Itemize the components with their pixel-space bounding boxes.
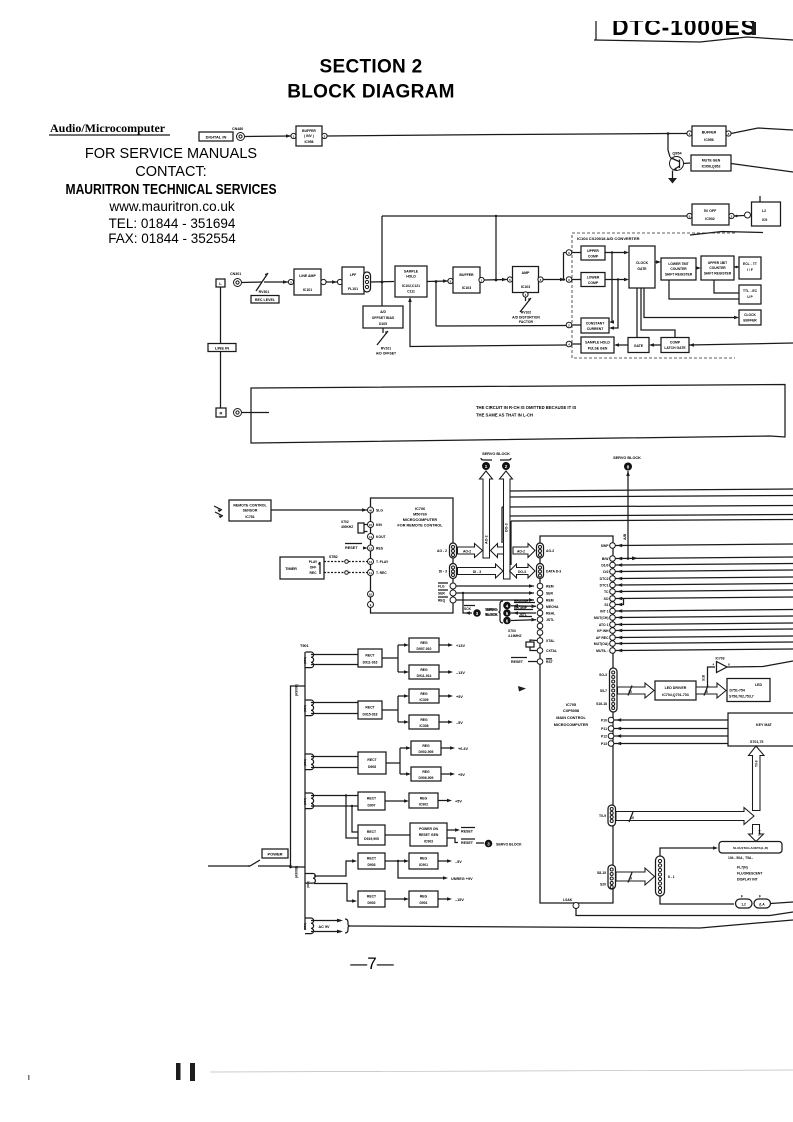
pin nc b [368,602,374,608]
svg-text:RESET: RESET [511,660,524,664]
reg D907-910 [409,638,439,652]
label REC LEVEL [251,296,279,304]
svg-text:RECT: RECT [365,654,375,658]
svg-text:F: F [759,895,761,899]
pin 2 [566,322,572,328]
winding 2 wires [311,703,358,714]
svg-text:CXTAL: CXTAL [546,649,557,653]
wire P12 [614,735,728,737]
wire gate to pulse gen [616,344,628,346]
svg-text:2: 2 [505,464,508,469]
wire reset to pin 13 [363,547,367,549]
svg-text:D105: D105 [379,322,387,326]
wire junction down to offset bias [381,282,383,306]
clock buffer [739,310,761,325]
pin INT1 [610,608,616,614]
svg-text:CURRENT: CURRENT [587,327,605,331]
lower comp [581,273,605,287]
rect D907 [358,792,385,810]
svg-text:P10: P10 [601,719,607,723]
wire down to Q954 [668,134,670,158]
svg-text:LINE AMP: LINE AMP [299,274,316,278]
svg-text:DTC1: DTC1 [600,584,609,588]
label FLG [438,582,448,584]
wire SER to IC705 [456,592,534,594]
wire buffer to amp [484,279,507,282]
svg-text:REQ: REQ [438,599,446,603]
pin 4 [566,341,572,347]
svg-text:REM: REM [546,585,554,589]
upper 1bit counter shift register [701,256,734,280]
ecl-ttl interface [739,257,761,279]
pin 6 [566,250,572,256]
pin ATO1 [610,622,616,628]
out +5V [439,695,451,697]
svg-text:IC956: IC956 [304,140,313,144]
binding mark 1 [176,1063,181,1080]
wire lpf to sample hold [371,281,395,284]
servo node 3b [485,840,493,848]
svg-text:IC781: IC781 [245,515,254,519]
svg-text:REG: REG [420,692,428,696]
svg-text:MUT(CH): MUT(CH) [594,616,609,620]
fat arrow T0-9 right [616,808,754,825]
IR arrows [214,506,223,516]
svg-text:IC903: IC903 [424,840,433,844]
pill S8-15 [608,865,616,889]
remote control sensor [229,500,271,521]
wire 5v off feed (y=216) [382,215,687,217]
power on reset gen IC903 [410,823,447,846]
arrow mark [518,686,526,692]
pin 15 KIN [368,522,374,528]
svg-text:LSAK: LSAK [563,898,573,902]
svg-text:DO-3: DO-3 [518,570,526,574]
pin REM a [537,583,543,589]
IC706 box [371,498,454,613]
wire L down [220,287,222,343]
wire P13 [614,743,728,745]
svg-text:DI - 3: DI - 3 [473,570,481,574]
wire pill bottom to lamp pills [660,896,734,904]
fat arrow AO-2 into IC705 [513,544,535,558]
pill DI-3 out [450,564,457,579]
svg-text:FACTOR: FACTOR [519,320,533,324]
buffer IC956 top right [692,126,726,146]
svg-text:IC956,Q952: IC956,Q952 [702,165,721,169]
pin SER [450,590,456,596]
pin 40 SLG [368,507,374,513]
pill T0-9 [608,805,616,826]
svg-text:SECTION 2: SECTION 2 [320,57,423,78]
wire jack to pot [242,281,262,284]
wire MUT(OA) [616,642,793,644]
wire rect2 to regs [382,696,407,722]
svg-text:14: 14 [369,535,373,539]
pin 1 of top buffer [687,131,692,136]
svg-text:COMP: COMP [588,281,599,285]
rect D919,905 [358,825,385,845]
svg-text:AC 9V: AC 9V [318,925,330,929]
sample hold pulse gen [581,337,614,353]
pin D/2 [610,569,616,575]
svg-text:(900): (900) [303,657,307,664]
svg-text:C111: C111 [407,290,415,294]
svg-text:CN301: CN301 [230,272,241,276]
buffer IC103 [453,267,480,293]
wire upper counter to ecl [734,266,739,268]
pin 2 [322,133,327,138]
fat arrow DO-3 double [510,564,536,578]
svg-text:MICROCOMPUTER: MICROCOMPUTER [554,723,589,727]
svg-text:AO-2: AO-2 [463,549,471,553]
pin nc a [368,591,374,597]
svg-text:ATO 1: ATO 1 [599,623,609,627]
svg-text:IC103: IC103 [521,285,530,289]
svg-text:GATE: GATE [637,267,647,271]
svg-text:A/B: A/B [623,533,627,540]
svg-text:SWP: SWP [601,544,609,548]
pin SWP [610,543,616,549]
buffer (inv) IC956 [296,126,322,146]
power switch label [262,849,288,858]
svg-text:1: 1 [485,464,488,469]
wire upper comp to clock gate [605,252,627,254]
svg-text:D902-905: D902-905 [419,750,434,754]
svg-text:( INV ): ( INV ) [304,134,314,138]
bus line 5 [511,520,793,522]
svg-text:–5V: –5V [456,721,463,725]
wire loop to constant current a [611,253,612,323]
wire pin6 to upper comp [572,252,581,254]
svg-text:REM6INH: REM6INH [514,599,529,603]
pin D1/0 [610,562,616,568]
wire junction drop [435,282,437,327]
svg-text:REG: REG [420,641,428,645]
pin 1 [291,133,296,138]
wire SCK drop [463,593,472,613]
relay box (cut at margin) [752,202,781,226]
ac9v arrows [311,921,341,932]
svg-text:AO-2: AO-2 [546,549,554,553]
svg-text:BUFFER: BUFFER [743,319,757,323]
wire clock gate to lower counter [655,261,659,263]
svg-text:SL34,STAG,AUETA(L,R): SL34,STAG,AUETA(L,R) [733,846,768,850]
svg-text:MAURITRON TECHNICAL SERVICES: MAURITRON TECHNICAL SERVICES [66,181,277,198]
svg-text:8 - 1: 8 - 1 [668,875,675,879]
fat bus arrow up from node 2 [500,471,513,579]
svg-text:CLOCK: CLOCK [744,313,756,317]
reg IC309 [409,689,439,703]
svg-text:SERVO BLOCK: SERVO BLOCK [482,452,510,456]
wire P11 [614,728,728,730]
winding 1 wires [311,655,358,665]
svg-text:(900): (900) [303,923,307,930]
branch to rect5 [352,806,358,832]
svg-text:(900): (900) [303,798,307,805]
label SER [438,589,448,591]
svg-text:SER: SER [546,592,554,596]
svg-text:THE CIRCUIT IN R-CH IS OM: THE CIRCUIT IN R-CH IS OMITTED BECAUSE I… [476,405,576,410]
wire feed vertical from analog junction [381,216,383,281]
connector pill on lpf [364,272,371,292]
wire rect4 to reg [385,800,407,802]
winding 3 [305,754,314,770]
underline [49,134,170,136]
AD converter dashed boundary IC104 [572,233,735,358]
svg-text:IC309: IC309 [419,698,428,702]
wire MUT(CH) [616,616,793,618]
rect D915-918 [358,701,382,719]
rect D908 [358,752,386,774]
svg-text:DO-3: DO-3 [505,523,509,532]
pin S1 [610,602,616,608]
svg-text:RESET: RESET [461,830,474,834]
svg-text:IC704,Q701-703: IC704,Q701-703 [662,693,689,697]
svg-text:RECT: RECT [365,706,375,710]
svg-text:CXP5058: CXP5058 [563,709,579,713]
pin B/W [610,556,616,562]
svg-text:TC: TC [604,590,609,594]
pin 5 [687,213,692,218]
svg-text:1,2: 1,2 [741,903,746,907]
svg-text:IC901: IC901 [419,863,428,867]
svg-text:RES: RES [376,547,384,551]
svg-text:TIMER: TIMER [285,567,297,571]
svg-text:FOR REMOTE CONTROL: FOR REMOTE CONTROL [397,524,443,528]
svg-text:LOWER: LOWER [587,276,600,280]
wire servo 8 down [627,471,629,559]
svg-text:MECHA: MECHA [546,605,559,609]
svg-text:(900): (900) [303,705,307,712]
svg-text:LED DRIVER: LED DRIVER [665,686,687,690]
header underline [594,37,793,42]
key matrix box [728,713,793,746]
winding 3 wires [311,757,358,768]
pot RV102 [520,297,531,312]
svg-text:D/2: D/2 [603,570,608,574]
svg-text:THE SAME AS THAT IN L-CH: THE SAME AS THAT IN L-CH [476,413,533,418]
svg-text:(A900B): (A900B) [295,684,299,696]
wire pot to amp [264,281,288,283]
pin 4 bottom [523,292,528,297]
wire mute gen out [731,164,793,173]
svg-text:LOWER 7BIT: LOWER 7BIT [668,262,688,266]
out -13V [439,671,451,673]
svg-text:FL101: FL101 [348,287,358,291]
svg-text:104 - 50A , T5A -: 104 - 50A , T5A - [728,856,753,860]
wire REQ to IC705 [456,599,534,601]
wire to relay [734,215,744,218]
svg-text:REMOTE CONTROL: REMOTE CONTROL [233,504,267,508]
transformer core bar [304,652,306,930]
svg-text:(LA: (LA [759,903,765,907]
wire node4 to MECHA [511,605,536,608]
IC705 box [540,536,613,903]
tick above relay [759,196,761,202]
wire rect3 to regs [386,748,409,774]
primary feed wire [291,686,306,867]
svg-text:DI - 3: DI - 3 [439,570,447,574]
rect D903 [358,853,385,869]
svg-text:F: F [741,895,743,899]
clock gate [629,246,655,288]
pin MUTIL [610,648,616,654]
pin SER [537,590,543,596]
vertical connector pill [656,856,665,896]
out -5V b [438,860,450,862]
connector DIGITAL IN [199,132,233,141]
wire ATO1 [616,623,793,625]
svg-text:SERVO BLOCK: SERVO BLOCK [496,843,522,847]
wire P10 [614,719,728,721]
svg-text:MUTE GEN: MUTE GEN [702,159,721,163]
svg-text:SHIFT REGISTER: SHIFT REGISTER [704,272,732,276]
svg-text:UPPER: UPPER [587,249,599,253]
wire to constant current [436,325,566,328]
wire B/W [616,557,793,559]
wire S1 jog to SO [616,599,624,605]
svg-text:BLOCK: BLOCK [486,613,498,617]
out +5V b [441,773,453,775]
wire node5 to REAL [511,612,536,614]
svg-text:D902: D902 [367,901,375,905]
svg-text:T0-9: T0-9 [755,760,759,767]
svg-text:T0-9: T0-9 [599,814,606,818]
svg-text:SAMPLE: SAMPLE [404,270,419,274]
wire pin2 into constant current [572,324,581,326]
fat arrow to led driver [618,683,655,698]
pin out [321,279,326,284]
wire buffer tap vertical [495,216,497,279]
svg-text:D919,905: D919,905 [364,837,379,841]
pill SO-3/S5-7/S16-18 [610,668,618,712]
svg-text:REG: REG [420,895,428,899]
fat arrow to led [696,683,726,698]
svg-text:Q954: Q954 [672,152,682,156]
svg-text:X703: X703 [508,629,516,633]
ac9v long wire [350,920,793,928]
timer wires to pins [324,561,368,563]
svg-text:IC102,C121: IC102,C121 [402,284,420,288]
stray mark [28,1075,30,1080]
pin P13 [608,741,614,747]
mute gen IC956,Q952 [691,155,731,171]
wire feedback ttl-ecl [714,280,739,293]
svg-text:XTAL: XTAL [546,639,555,643]
lpf FL101 [342,267,364,294]
svg-text:Audio/Microcomputer: Audio/Microcomputer [50,121,166,135]
reset label [511,657,527,659]
svg-text:RV301: RV301 [259,290,270,294]
out +6.4V [441,747,453,749]
servo node 3 [473,609,481,617]
svg-text:IC101: IC101 [303,288,312,292]
pin 5 [507,277,512,282]
pin 3 [538,277,543,282]
pin 12 T.PLAY [368,559,374,565]
svg-text:STB2: STB2 [329,555,338,559]
svg-text:SCK: SCK [464,607,472,611]
junction on SER wire [462,592,464,594]
svg-text:RESET: RESET [345,546,358,550]
wire DTC1 [616,584,793,586]
svg-text:SHIFT REGISTER: SHIFT REGISTER [665,273,693,277]
svg-text:RV102: RV102 [521,311,531,315]
svg-text:FAX: 01844 - 352554: FAX: 01844 - 352554 [108,231,236,246]
out -15V [438,898,450,900]
svg-text:UNREG +9V: UNREG +9V [451,877,473,881]
svg-text:RST: RST [546,660,554,664]
svg-text:MUT(OA): MUT(OA) [594,642,609,646]
svg-text:ECL→TT: ECL→TT [743,262,757,266]
svg-text:D915-918: D915-918 [363,713,378,717]
wire MUTIL [616,649,793,651]
svg-text:D907-910: D907-910 [417,647,432,651]
svg-text:–15V: –15V [455,898,464,902]
svg-text:15: 15 [369,523,373,527]
slanted wire below [690,232,763,236]
svg-text:+5V: +5V [456,695,463,699]
svg-text:POWER: POWER [267,852,282,857]
label LINE IN [208,344,236,352]
svg-text:S16-18: S16-18 [596,702,607,706]
pin TC [610,589,616,595]
svg-text:D908: D908 [368,765,376,769]
svg-text:POWER ON: POWER ON [419,827,438,831]
svg-text:A/D OFFSET: A/D OFFSET [376,352,397,356]
wire AFREC [616,636,793,638]
gate [628,338,649,353]
wire up to IC703 [708,667,716,687]
wire TC [616,590,793,592]
svg-text:(900): (900) [303,759,307,766]
jack R [234,409,242,417]
bracket [481,458,511,460]
svg-text:S8-15: S8-15 [597,871,606,875]
wire LSAK out [576,909,793,916]
heater pill 1 [736,899,753,908]
svg-text:BUFFER: BUFFER [459,273,474,277]
svg-text:DATA D-3: DATA D-3 [546,570,561,574]
svg-text:D1/0: D1/0 [601,564,608,568]
svg-text:BUFFER: BUFFER [302,129,316,133]
winding 4 [305,793,314,809]
svg-text:CLOCK: CLOCK [636,261,649,265]
wire loop to constant current b [611,280,618,329]
fat arrow left row1 [491,544,504,558]
wire pill top to SL34 [660,848,716,856]
winding 2 [305,700,314,716]
out +13V [439,644,451,646]
svg-text:SENSOR: SENSOR [243,509,258,513]
wire to buffer [245,135,291,138]
svg-text:RESET GEN: RESET GEN [419,833,439,837]
pin REQ [450,597,456,603]
svg-text:AMP: AMP [522,271,530,275]
pin CXTAL [537,648,543,654]
pin circle [745,212,751,218]
svg-text:REG: REG [420,857,428,861]
svg-text:FOR SERVICE MANUALS: FOR SERVICE MANUALS [85,146,257,162]
svg-text:SER: SER [438,592,445,596]
svg-text:HOLD: HOLD [406,275,416,279]
fat bus arrow up from node 1 [480,471,493,558]
svg-text:UPPER 1BIT: UPPER 1BIT [708,261,727,265]
svg-text:RESET: RESET [461,841,474,845]
pin DTC2 [610,576,616,582]
svg-text:L2: L2 [762,209,766,213]
